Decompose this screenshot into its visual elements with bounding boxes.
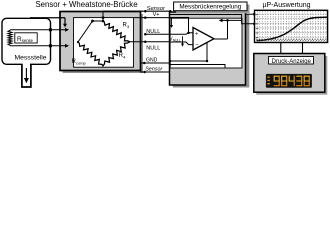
- svg-text:V+: V+: [153, 12, 160, 18]
- svg-text:Messbrückenregelung: Messbrückenregelung: [179, 4, 241, 11]
- svg-text:µP-Auswertung: µP-Auswertung: [263, 2, 311, 9]
- svg-text:Messstelle: Messstelle: [14, 55, 46, 62]
- svg-text:sense: sense: [22, 38, 34, 43]
- svg-text:NULL: NULL: [146, 29, 160, 35]
- svg-text:Druck-Anzeige: Druck-Anzeige: [272, 59, 312, 65]
- svg-text:NULL: NULL: [146, 46, 160, 52]
- svg-text:Sensor: Sensor: [145, 67, 162, 73]
- svg-text:GND: GND: [146, 57, 158, 63]
- svg-text:comp: comp: [76, 60, 87, 65]
- svg-text:+: +: [195, 31, 198, 37]
- svg-text:NULL: NULL: [173, 38, 181, 42]
- svg-text:−: −: [195, 42, 198, 48]
- svg-text:Sensor + Wheatstone-Brücke: Sensor + Wheatstone-Brücke: [35, 0, 137, 9]
